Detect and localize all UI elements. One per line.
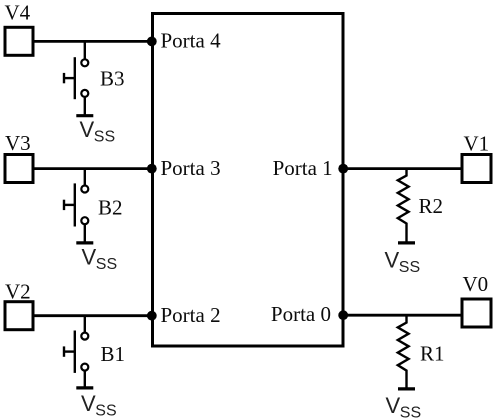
label V3 xyxy=(5,131,31,155)
label Porta 2 xyxy=(161,303,221,327)
svg-text:B1: B1 xyxy=(101,342,126,366)
label V0 xyxy=(463,272,489,296)
svg-text:Porta 4: Porta 4 xyxy=(161,29,222,53)
node Porta 0 xyxy=(338,310,348,320)
svg-text:B2: B2 xyxy=(98,195,123,219)
svg-text:Porta 3: Porta 3 xyxy=(161,156,221,180)
label B3 xyxy=(100,67,125,91)
svg-text:SS: SS xyxy=(94,129,115,146)
label VSS of R2 xyxy=(385,248,421,277)
svg-text:Porta 0: Porta 0 xyxy=(271,302,331,326)
terminal V1 xyxy=(462,155,491,183)
svg-text:V: V xyxy=(81,391,96,416)
svg-text:V: V xyxy=(80,117,95,142)
svg-text:SS: SS xyxy=(399,259,420,276)
svg-text:V3: V3 xyxy=(5,131,31,155)
terminal V0 xyxy=(462,299,491,327)
terminal V3 xyxy=(5,155,33,183)
svg-text:R1: R1 xyxy=(420,341,445,365)
label R1 xyxy=(420,341,445,365)
svg-text:Porta 2: Porta 2 xyxy=(161,303,221,327)
wire V2 to Porta 2 xyxy=(33,314,153,317)
svg-text:SS: SS xyxy=(95,402,116,419)
terminal V4 xyxy=(5,27,33,55)
svg-text:V4: V4 xyxy=(5,1,31,25)
label Porta 1 xyxy=(273,156,333,180)
node Porta 3 xyxy=(147,164,157,174)
label Porta 3 xyxy=(161,156,221,180)
svg-text:B3: B3 xyxy=(100,67,125,91)
ground VSS of B1 xyxy=(76,371,93,388)
wire V3 to Porta 3 xyxy=(33,167,153,170)
label VSS of B1 xyxy=(81,391,117,420)
ground VSS of R2 xyxy=(398,241,415,244)
svg-text:V2: V2 xyxy=(5,279,31,303)
node Porta 2 xyxy=(147,311,157,321)
resistor R1 xyxy=(398,315,409,389)
svg-text:V0: V0 xyxy=(463,272,489,296)
label B2 xyxy=(98,195,123,219)
svg-text:SS: SS xyxy=(400,405,421,420)
terminal V2 xyxy=(5,302,33,330)
label VSS of R1 xyxy=(386,393,422,420)
label B1 xyxy=(101,342,126,366)
wire V4 to Porta 4 xyxy=(33,40,153,43)
pushbutton B3 xyxy=(64,41,88,99)
wire Porta 1 to V1 xyxy=(343,167,462,170)
node Porta 4 xyxy=(147,37,157,47)
ground VSS of R1 xyxy=(398,387,415,390)
node Porta 1 xyxy=(338,164,348,174)
label VSS of B2 xyxy=(82,244,118,273)
pushbutton B2 xyxy=(64,169,88,227)
svg-text:R2: R2 xyxy=(419,194,444,218)
label V4 xyxy=(5,1,31,25)
svg-text:Porta 1: Porta 1 xyxy=(273,156,333,180)
label Porta 0 xyxy=(271,302,331,326)
label Porta 4 xyxy=(161,29,222,53)
svg-text:V1: V1 xyxy=(464,131,490,155)
ground VSS of B3 xyxy=(76,97,93,116)
pushbutton B1 xyxy=(64,316,88,373)
label V1 xyxy=(464,131,490,155)
IC block U1 xyxy=(153,14,344,347)
resistor R2 xyxy=(398,169,409,243)
svg-text:V: V xyxy=(385,248,400,273)
svg-text:SS: SS xyxy=(96,256,117,273)
svg-text:V: V xyxy=(386,393,401,418)
label V2 xyxy=(5,279,31,303)
label VSS of B3 xyxy=(80,117,116,146)
wire Porta 0 to V0 xyxy=(343,314,462,317)
ground VSS of B2 xyxy=(76,224,93,243)
label R2 xyxy=(419,194,444,218)
svg-text:V: V xyxy=(82,244,97,269)
